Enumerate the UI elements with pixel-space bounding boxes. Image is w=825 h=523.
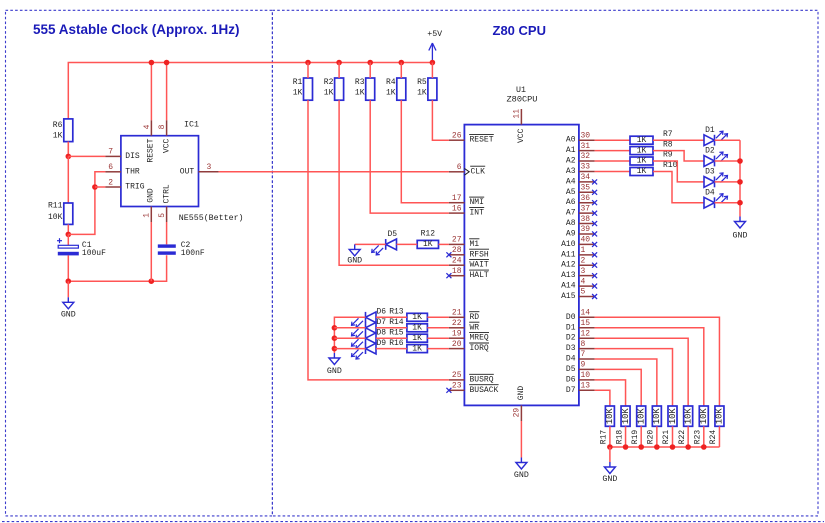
wire rail to ground: [609, 447, 611, 462]
svg-text:INT: INT: [470, 209, 485, 218]
svg-text:100uF: 100uF: [82, 249, 106, 258]
resistor R7 1K: [630, 130, 673, 145]
pin 2 A12 of U1: [561, 256, 597, 269]
svg-text:GND: GND: [733, 232, 748, 241]
svg-text:27: 27: [452, 236, 462, 245]
wire R10 to D4: [653, 172, 704, 203]
LED D4: [704, 188, 728, 208]
svg-text:A1: A1: [566, 146, 576, 155]
wire D5 to R12: [397, 243, 418, 245]
resistor R9 1K: [630, 151, 673, 166]
wire R3 to INT: [370, 100, 449, 213]
svg-text:17: 17: [452, 194, 462, 203]
junction pulldown rail: [670, 444, 676, 450]
wire rail to R4: [400, 63, 402, 79]
pin 7 D4 of U1: [566, 350, 595, 363]
svg-text:RESET: RESET: [470, 136, 494, 145]
svg-text:5: 5: [158, 213, 167, 218]
svg-text:9: 9: [581, 361, 586, 370]
svg-text:10K: 10K: [683, 408, 693, 425]
svg-text:A9: A9: [566, 229, 576, 238]
wire D1 to gnd bus: [715, 139, 741, 141]
wire D4 to R20: [595, 359, 657, 406]
svg-text:1K: 1K: [53, 132, 63, 141]
svg-text:R16: R16: [389, 339, 404, 348]
svg-text:MREQ: MREQ: [470, 334, 489, 343]
svg-text:A15: A15: [561, 292, 576, 301]
junction pulldown rail: [623, 444, 629, 450]
svg-text:GND: GND: [61, 311, 76, 320]
svg-text:R18: R18: [615, 430, 624, 445]
wire D2 to R22: [595, 338, 689, 406]
svg-text:D7: D7: [377, 318, 387, 327]
svg-text:R17: R17: [600, 430, 609, 445]
capacitor C2 100nF: [158, 241, 205, 258]
pin 32 A2 of U1: [566, 152, 595, 165]
svg-text:4: 4: [143, 124, 152, 129]
resistor R23 10K: [694, 406, 710, 444]
svg-text:37: 37: [581, 204, 591, 213]
svg-text:NMI: NMI: [470, 198, 484, 207]
pin 6 CLK of U1: [449, 163, 485, 176]
svg-text:19: 19: [452, 329, 462, 338]
svg-text:100nF: 100nF: [181, 249, 205, 258]
wire A1 to R8: [595, 150, 630, 152]
resistor R15 1K: [389, 329, 427, 343]
svg-text:14: 14: [581, 309, 591, 318]
junction pulldown rail: [638, 444, 644, 450]
pin 28 RFSH of U1: [446, 246, 489, 259]
pin 5 CTRL of IC1: [158, 207, 167, 223]
svg-text:29: 29: [513, 408, 522, 418]
wire R9 to D3: [653, 161, 704, 182]
wire rail to R5: [431, 63, 433, 79]
svg-text:A8: A8: [566, 219, 576, 228]
pin 40 A10 of U1: [561, 236, 597, 249]
junction pin4 rail: [149, 60, 155, 66]
wire A0 to R7: [595, 139, 630, 141]
wire LED gnd bus: [739, 140, 741, 216]
wire D9 to R16: [376, 348, 407, 350]
wire R18 bottom: [625, 426, 627, 447]
svg-text:21: 21: [452, 309, 462, 318]
svg-text:VCC: VCC: [517, 128, 526, 143]
LED D6: [352, 308, 387, 328]
svg-text:OUT: OUT: [180, 167, 195, 176]
svg-text:D4: D4: [566, 355, 576, 364]
svg-text:D0: D0: [566, 313, 576, 322]
svg-text:1K: 1K: [637, 167, 647, 176]
pin 14 D0 of U1: [566, 309, 595, 322]
svg-text:10: 10: [581, 371, 591, 380]
svg-text:GND: GND: [347, 257, 362, 266]
svg-text:R22: R22: [678, 430, 687, 445]
svg-text:38: 38: [581, 215, 591, 224]
pin 12 D2 of U1: [566, 329, 595, 342]
svg-text:RFSH: RFSH: [470, 250, 489, 259]
LED D2: [704, 147, 728, 167]
pin 7 DIS of IC1: [105, 148, 121, 157]
svg-text:1K: 1K: [386, 89, 396, 98]
svg-text:HALT: HALT: [470, 271, 489, 280]
wire R22 bottom: [687, 426, 689, 447]
resistor R19 10K: [631, 406, 647, 444]
wire rail to R3: [369, 63, 371, 79]
svg-text:4: 4: [581, 277, 586, 286]
wire LED to bus: [334, 348, 365, 350]
svg-text:R13: R13: [389, 308, 404, 317]
svg-text:A11: A11: [561, 250, 576, 259]
resistor R22 10K: [678, 406, 694, 444]
wire R15 to cpu: [427, 337, 449, 339]
resistor R18 10K: [615, 406, 631, 444]
wire DIS link: [68, 155, 105, 157]
LED D8: [352, 329, 387, 349]
wire R24 bottom: [718, 426, 720, 447]
pin 1 A11 of U1: [561, 246, 597, 259]
svg-text:A2: A2: [566, 157, 576, 166]
pin 35 A5 of U1: [566, 184, 597, 197]
resistor R13 1K: [389, 308, 427, 322]
wire D1 to R23: [595, 328, 704, 406]
pin 11 VCC of U1: [513, 109, 522, 125]
resistor R21 10K: [662, 406, 678, 444]
svg-text:WAIT: WAIT: [470, 261, 489, 270]
wire R11 to C1 node: [67, 224, 69, 234]
svg-text:10K: 10K: [699, 408, 709, 425]
svg-text:D9: D9: [377, 339, 387, 348]
wire D0 to R24: [595, 317, 720, 406]
svg-text:15: 15: [581, 319, 591, 328]
wire A3 to R10: [595, 171, 630, 173]
resistor R4 1K: [386, 78, 406, 100]
svg-text:10K: 10K: [637, 408, 647, 425]
svg-text:BUSRQ: BUSRQ: [470, 375, 494, 384]
pin 30 A0 of U1: [566, 131, 595, 144]
resistor R20 10K: [647, 406, 663, 444]
svg-text:GND: GND: [146, 188, 155, 203]
junction LED bus: [332, 335, 338, 341]
svg-text:R8: R8: [663, 140, 673, 149]
svg-text:THR: THR: [125, 167, 140, 176]
svg-text:R12: R12: [421, 230, 436, 239]
resistor R11 10K: [48, 202, 73, 225]
wire VCC pin8 to rail: [166, 63, 168, 121]
svg-text:R2: R2: [324, 78, 334, 87]
wire R8 to D2: [653, 151, 704, 161]
resistor R5 1K: [417, 78, 437, 100]
svg-text:TRIG: TRIG: [125, 183, 144, 192]
svg-text:RESET: RESET: [147, 138, 156, 162]
wire D7 to R17: [595, 390, 610, 406]
svg-text:10K: 10K: [621, 408, 631, 425]
svg-text:1K: 1K: [412, 324, 422, 333]
svg-text:R10: R10: [663, 161, 678, 170]
svg-text:R5: R5: [417, 78, 427, 87]
svg-text:33: 33: [581, 163, 591, 172]
svg-text:D7: D7: [566, 386, 576, 395]
svg-text:23: 23: [452, 382, 462, 391]
pin 27 M1 of U1: [449, 236, 480, 249]
wire RESET pin4 to rail: [150, 63, 152, 121]
resistor R14 1K: [389, 318, 427, 332]
junction pulldown rail: [607, 444, 613, 450]
wire OUT to Z80 CLK: [219, 171, 449, 173]
junction pin8 rail: [164, 60, 170, 66]
pin 36 A6 of U1: [566, 194, 597, 207]
svg-text:35: 35: [581, 184, 591, 193]
svg-text:DIS: DIS: [125, 152, 140, 161]
svg-text:30: 30: [581, 131, 591, 140]
svg-text:D6: D6: [377, 308, 387, 317]
wire LED cathode bus to ground: [334, 317, 365, 353]
svg-text:18: 18: [452, 267, 462, 276]
pin 29 GND of U1: [513, 405, 522, 421]
svg-text:D3: D3: [566, 344, 576, 353]
junction R4 rail: [399, 60, 405, 66]
wire D4 to gnd bus: [715, 202, 741, 204]
svg-text:1K: 1K: [412, 344, 422, 353]
pin 15 D1 of U1: [566, 319, 595, 332]
svg-text:A10: A10: [561, 240, 576, 249]
wire rail to R1: [307, 63, 309, 79]
wire R20 bottom: [656, 426, 658, 447]
svg-text:10K: 10K: [715, 408, 725, 425]
resistor R16 1K: [389, 339, 427, 353]
power +5V: [427, 30, 442, 63]
pin 26 RESET of U1: [449, 131, 494, 144]
svg-text:1K: 1K: [324, 89, 334, 98]
svg-text:20: 20: [452, 340, 462, 349]
pin 39 A9 of U1: [566, 225, 597, 238]
svg-text:22: 22: [452, 319, 462, 328]
svg-text:R21: R21: [662, 430, 671, 445]
svg-text:D5: D5: [566, 365, 576, 374]
wire +5V rail: [68, 63, 432, 157]
svg-text:555 Astable Clock (Approx. 1Hz: 555 Astable Clock (Approx. 1Hz): [33, 22, 240, 37]
pin 19 MREQ of U1: [449, 329, 489, 342]
svg-text:11: 11: [513, 109, 522, 119]
svg-text:D3: D3: [705, 168, 715, 177]
junction +5V node: [430, 60, 436, 66]
junction R1 rail: [305, 60, 311, 66]
svg-text:VCC: VCC: [162, 139, 171, 154]
svg-text:1K: 1K: [355, 89, 365, 98]
svg-text:D6: D6: [566, 375, 576, 384]
svg-text:R20: R20: [647, 430, 656, 445]
svg-text:R14: R14: [389, 318, 404, 327]
svg-text:R23: R23: [694, 430, 703, 445]
svg-text:D1: D1: [705, 126, 715, 135]
svg-text:A4: A4: [566, 177, 576, 186]
svg-text:3: 3: [207, 163, 212, 172]
svg-text:6: 6: [457, 163, 462, 172]
svg-text:32: 32: [581, 152, 591, 161]
svg-text:RD: RD: [470, 313, 480, 322]
svg-text:A14: A14: [561, 282, 576, 291]
svg-text:A0: A0: [566, 136, 576, 145]
pin 31 A1 of U1: [566, 142, 595, 155]
pin 38 A8 of U1: [566, 215, 597, 228]
ground GND at pulldowns: [602, 462, 617, 484]
junction LED gnd bus: [737, 200, 743, 206]
svg-text:36: 36: [581, 194, 591, 203]
pin 8 VCC of IC1: [158, 120, 167, 136]
pin 21 RD of U1: [449, 309, 480, 322]
wire R13 to cpu: [427, 316, 449, 318]
pin 4 A14 of U1: [561, 277, 597, 290]
wire 555 ground rail: [68, 255, 166, 281]
junction pulldown rail: [685, 444, 691, 450]
svg-text:BUSACK: BUSACK: [470, 386, 499, 395]
svg-text:R1: R1: [293, 78, 303, 87]
resistor R6 1K: [53, 119, 73, 142]
svg-text:12: 12: [581, 329, 591, 338]
pin 25 BUSRQ of U1: [449, 371, 494, 384]
ground GND at D5: [347, 244, 362, 265]
svg-text:6: 6: [108, 163, 113, 172]
svg-text:GND: GND: [602, 475, 617, 484]
pin 23 BUSACK of U1: [446, 382, 498, 395]
pin 1 GND of IC1: [143, 207, 152, 223]
pin 16 INT of U1: [449, 204, 484, 217]
junction LED bus: [332, 325, 338, 331]
svg-text:7: 7: [108, 148, 113, 157]
resistor R12 1K: [417, 230, 438, 250]
pin 34 A4 of U1: [566, 173, 597, 186]
pin 2 TRIG of IC1: [105, 178, 121, 187]
svg-text:13: 13: [581, 382, 591, 391]
svg-text:D4: D4: [705, 188, 715, 197]
wire R14 to cpu: [427, 327, 449, 329]
junction R11/C1/THR node: [66, 232, 72, 238]
pin 3 A13 of U1: [561, 267, 597, 280]
svg-text:A13: A13: [561, 271, 576, 280]
svg-text:1K: 1K: [637, 157, 647, 166]
pin 22 WR of U1: [449, 319, 480, 332]
svg-text:R11: R11: [48, 202, 63, 211]
svg-text:A6: A6: [566, 198, 576, 207]
svg-text:D2: D2: [705, 147, 715, 156]
wire R17 bottom: [609, 426, 611, 447]
resistor R2 1K: [324, 78, 344, 100]
IC U1 Z80CPU body: [464, 86, 579, 405]
svg-text:A3: A3: [566, 167, 576, 176]
junction TRIG node: [92, 184, 98, 190]
svg-text:2: 2: [108, 178, 113, 187]
wire R1 to BUSRQ: [308, 100, 449, 380]
wire R5 to RESET: [432, 100, 449, 140]
svg-text:R3: R3: [355, 78, 365, 87]
junction R2 rail: [336, 60, 342, 66]
wire DIS node down to R11: [67, 156, 69, 203]
pin 20 IORQ of U1: [449, 340, 489, 353]
svg-text:+5V: +5V: [427, 30, 442, 39]
junction LED bus: [332, 346, 338, 352]
junction 555 gnd pin node: [149, 278, 155, 284]
junction LED gnd bus: [737, 179, 743, 185]
svg-text:10K: 10K: [652, 408, 662, 425]
wire TRIG stub link: [95, 186, 106, 188]
junction pulldown rail: [654, 444, 660, 450]
junction LED gnd bus: [737, 158, 743, 164]
svg-text:1K: 1K: [293, 89, 303, 98]
svg-text:R24: R24: [709, 430, 718, 445]
pin 6 THR of IC1: [105, 163, 121, 172]
wire D3 to R21: [595, 349, 673, 406]
svg-text:D5: D5: [387, 230, 397, 239]
junction DIS node: [66, 154, 72, 160]
svg-text:24: 24: [452, 256, 462, 265]
wire D6 to R13: [376, 316, 407, 318]
wire D6 to R18: [595, 380, 626, 406]
pin 10 D6 of U1: [566, 371, 595, 384]
LED D9: [352, 339, 387, 359]
svg-text:25: 25: [452, 371, 462, 380]
svg-text:A12: A12: [561, 261, 576, 270]
ground GND at D1-D4: [733, 217, 748, 241]
svg-text:10K: 10K: [668, 408, 678, 425]
svg-text:R19: R19: [631, 430, 640, 445]
resistor R3 1K: [355, 78, 375, 100]
wire CTRL to C2: [166, 222, 168, 244]
svg-text:WR: WR: [470, 323, 480, 332]
pin 33 A3 of U1: [566, 163, 595, 176]
svg-text:CLK: CLK: [471, 167, 486, 176]
ground GND 555: [61, 281, 76, 319]
svg-text:16: 16: [452, 204, 462, 213]
LED D5: [372, 230, 398, 255]
svg-text:1: 1: [581, 246, 586, 255]
wire R21 bottom: [672, 426, 674, 447]
svg-text:Z80 CPU: Z80 CPU: [493, 23, 546, 38]
wire R12 to M1: [439, 243, 449, 245]
pin 24 WAIT of U1: [449, 256, 489, 269]
pin 18 HALT of U1: [446, 267, 489, 280]
svg-text:28: 28: [452, 246, 462, 255]
svg-text:7: 7: [581, 350, 586, 359]
op-amp U IC1 NE555 timer body: [121, 121, 244, 223]
ground GND at LED bus: [327, 353, 342, 376]
wire D2 to gnd bus: [715, 160, 741, 162]
svg-text:R7: R7: [663, 130, 673, 139]
svg-text:A7: A7: [566, 209, 576, 218]
wire rail to R2: [338, 63, 340, 79]
svg-text:1K: 1K: [412, 313, 422, 322]
pin 4 RESET of IC1: [143, 120, 152, 136]
LED D1: [704, 126, 728, 146]
svg-text:8: 8: [581, 340, 586, 349]
svg-text:5: 5: [581, 288, 586, 297]
svg-text:1K: 1K: [417, 89, 427, 98]
wire D5 to R19: [595, 369, 642, 406]
wire D5 to ground: [355, 243, 386, 245]
svg-text:Z80CPU: Z80CPU: [507, 94, 538, 104]
svg-text:A5: A5: [566, 188, 576, 197]
resistor R17 10K: [600, 406, 616, 444]
svg-text:40: 40: [581, 236, 591, 245]
wire GND pin1 to ground rail: [150, 222, 152, 281]
pin 5 A15 of U1: [561, 288, 597, 301]
wire R16 to cpu: [427, 348, 449, 350]
resistor R24 10K: [709, 406, 725, 444]
svg-text:IC1: IC1: [184, 121, 199, 130]
junction R3 rail: [367, 60, 373, 66]
wire pulldown ground rail: [610, 446, 720, 448]
resistor R1 1K: [293, 78, 313, 100]
svg-text:1K: 1K: [637, 146, 647, 155]
svg-text:D8: D8: [377, 329, 387, 338]
